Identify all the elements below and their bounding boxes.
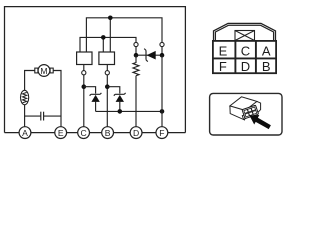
component icon: box top face — [230, 97, 257, 111]
wire: column from box2 circle down to terminal B — [106, 75, 108, 127]
wire: column from box1 circle down to terminal C — [83, 75, 85, 127]
motor M1 body — [38, 65, 50, 77]
wire: breaker bottom lead down to terminal A — [24, 105, 26, 127]
svg-text:E: E — [219, 43, 228, 58]
wire: bottom terminal row bus — [5, 132, 186, 134]
wire: lower horizontal bus y=111.4 — [96, 110, 162, 112]
terminal D — [130, 127, 142, 139]
svg-text:C: C — [241, 43, 250, 58]
svg-text:A: A — [262, 43, 271, 58]
wire: right column circle to diode row — [161, 47, 163, 56]
terminal B — [102, 127, 114, 139]
node: junction dot on second rail at box2 left lead — [101, 35, 106, 40]
svg-text:B: B — [105, 128, 111, 138]
wire: motor left lead — [25, 71, 35, 91]
zener diode D1 anode triangle — [91, 95, 99, 102]
node: junction dot left end of diode row — [134, 53, 139, 58]
wire: capacitor branch — [25, 115, 61, 117]
node: junction dot F column on lower bus — [160, 109, 165, 114]
wire: box1 bottom lead — [83, 65, 85, 71]
wire: second rail y=37.4 from box1 left lead to left diode column — [80, 37, 136, 52]
circuit breaker zigzag element — [23, 92, 27, 103]
wire: branch from B column to zener D2 — [107, 87, 120, 94]
zener diode D3 cathode bar (pointing left) — [144, 49, 148, 62]
wire: motor right lead down to terminal E — [53, 71, 61, 127]
wire: box2 right lead — [109, 18, 111, 52]
contact: open circle under box2 — [105, 71, 109, 75]
connector pinout: grid row divider — [213, 57, 276, 59]
capacitor C1 left plate — [40, 112, 42, 121]
connector pinout: grid outer — [213, 41, 276, 73]
svg-text:F: F — [219, 59, 227, 74]
circuit breaker CB (oval with zigzag) — [21, 90, 29, 104]
connector pinout: latch box — [235, 31, 255, 41]
contact: open circle on left diode column — [134, 42, 138, 46]
relay box 2 — [99, 52, 115, 65]
relay box 1 — [77, 52, 92, 65]
svg-text:D: D — [241, 59, 250, 74]
connector pinout: hood inner outline — [215, 25, 273, 41]
component icon: connector block with pin grid — [240, 105, 258, 119]
svg-text:A: A — [22, 128, 28, 138]
component icon: box right end — [257, 101, 261, 113]
wire: F column from diode row to terminal F — [161, 55, 163, 127]
wire: zener D2 bottom lead — [119, 102, 121, 112]
node: junction dot on C column — [82, 84, 87, 89]
component icon: pointer arrow — [249, 115, 271, 129]
wire: horizontal diode row y=55.2 — [136, 54, 162, 56]
zener diode D1 cathode bar — [90, 93, 102, 96]
svg-text:D: D — [133, 128, 139, 138]
capacitor C1 right plate — [43, 112, 45, 121]
resistor R1 on D column — [133, 55, 139, 75]
wire: D column from resistor to terminal D — [135, 76, 137, 127]
svg-text:C: C — [80, 128, 86, 138]
terminal C — [78, 127, 90, 139]
wire: box2 bottom lead — [106, 65, 108, 71]
component icon frame — [210, 93, 282, 135]
component icon: box front face — [230, 106, 245, 120]
motor M1 brush left — [35, 68, 38, 73]
zener diode D2 cathode bar — [114, 93, 126, 96]
svg-text:B: B — [262, 59, 271, 74]
node: junction dot right end of diode row — [160, 53, 165, 58]
connector pinout: latch X — [235, 31, 255, 41]
node: junction dot on top rail at box2 right lead — [108, 15, 113, 20]
connector pinout: hood outer outline — [214, 23, 276, 40]
node: junction dot zener D2 on lower bus — [118, 109, 123, 114]
motor M1 brush right — [50, 68, 53, 73]
terminal F — [156, 127, 168, 139]
wire: outer case border (left, top, right sides) — [5, 7, 186, 133]
wire: top rail y=17.8 from box1 right lead to right column — [86, 18, 162, 52]
wire: branch from C column to zener D1 — [84, 87, 96, 94]
wire: zener D1 bottom lead to bottom bus — [95, 102, 97, 112]
connector pinout: grid column dividers — [235, 41, 256, 73]
node: junction dot on B column — [105, 84, 110, 89]
zener diode D2 anode triangle — [116, 95, 124, 102]
svg-text:F: F — [159, 128, 164, 138]
wire: left diode column circle to diode row — [135, 47, 137, 56]
contact: open circle under box1 — [82, 71, 86, 75]
zener diode D3 anode triangle — [147, 51, 156, 60]
terminal A — [19, 127, 31, 139]
terminal E — [55, 127, 67, 139]
svg-text:E: E — [58, 128, 64, 138]
contact: open circle on right column — [160, 42, 164, 46]
wire: box2 left lead — [102, 37, 104, 52]
svg-text:M: M — [40, 66, 47, 76]
